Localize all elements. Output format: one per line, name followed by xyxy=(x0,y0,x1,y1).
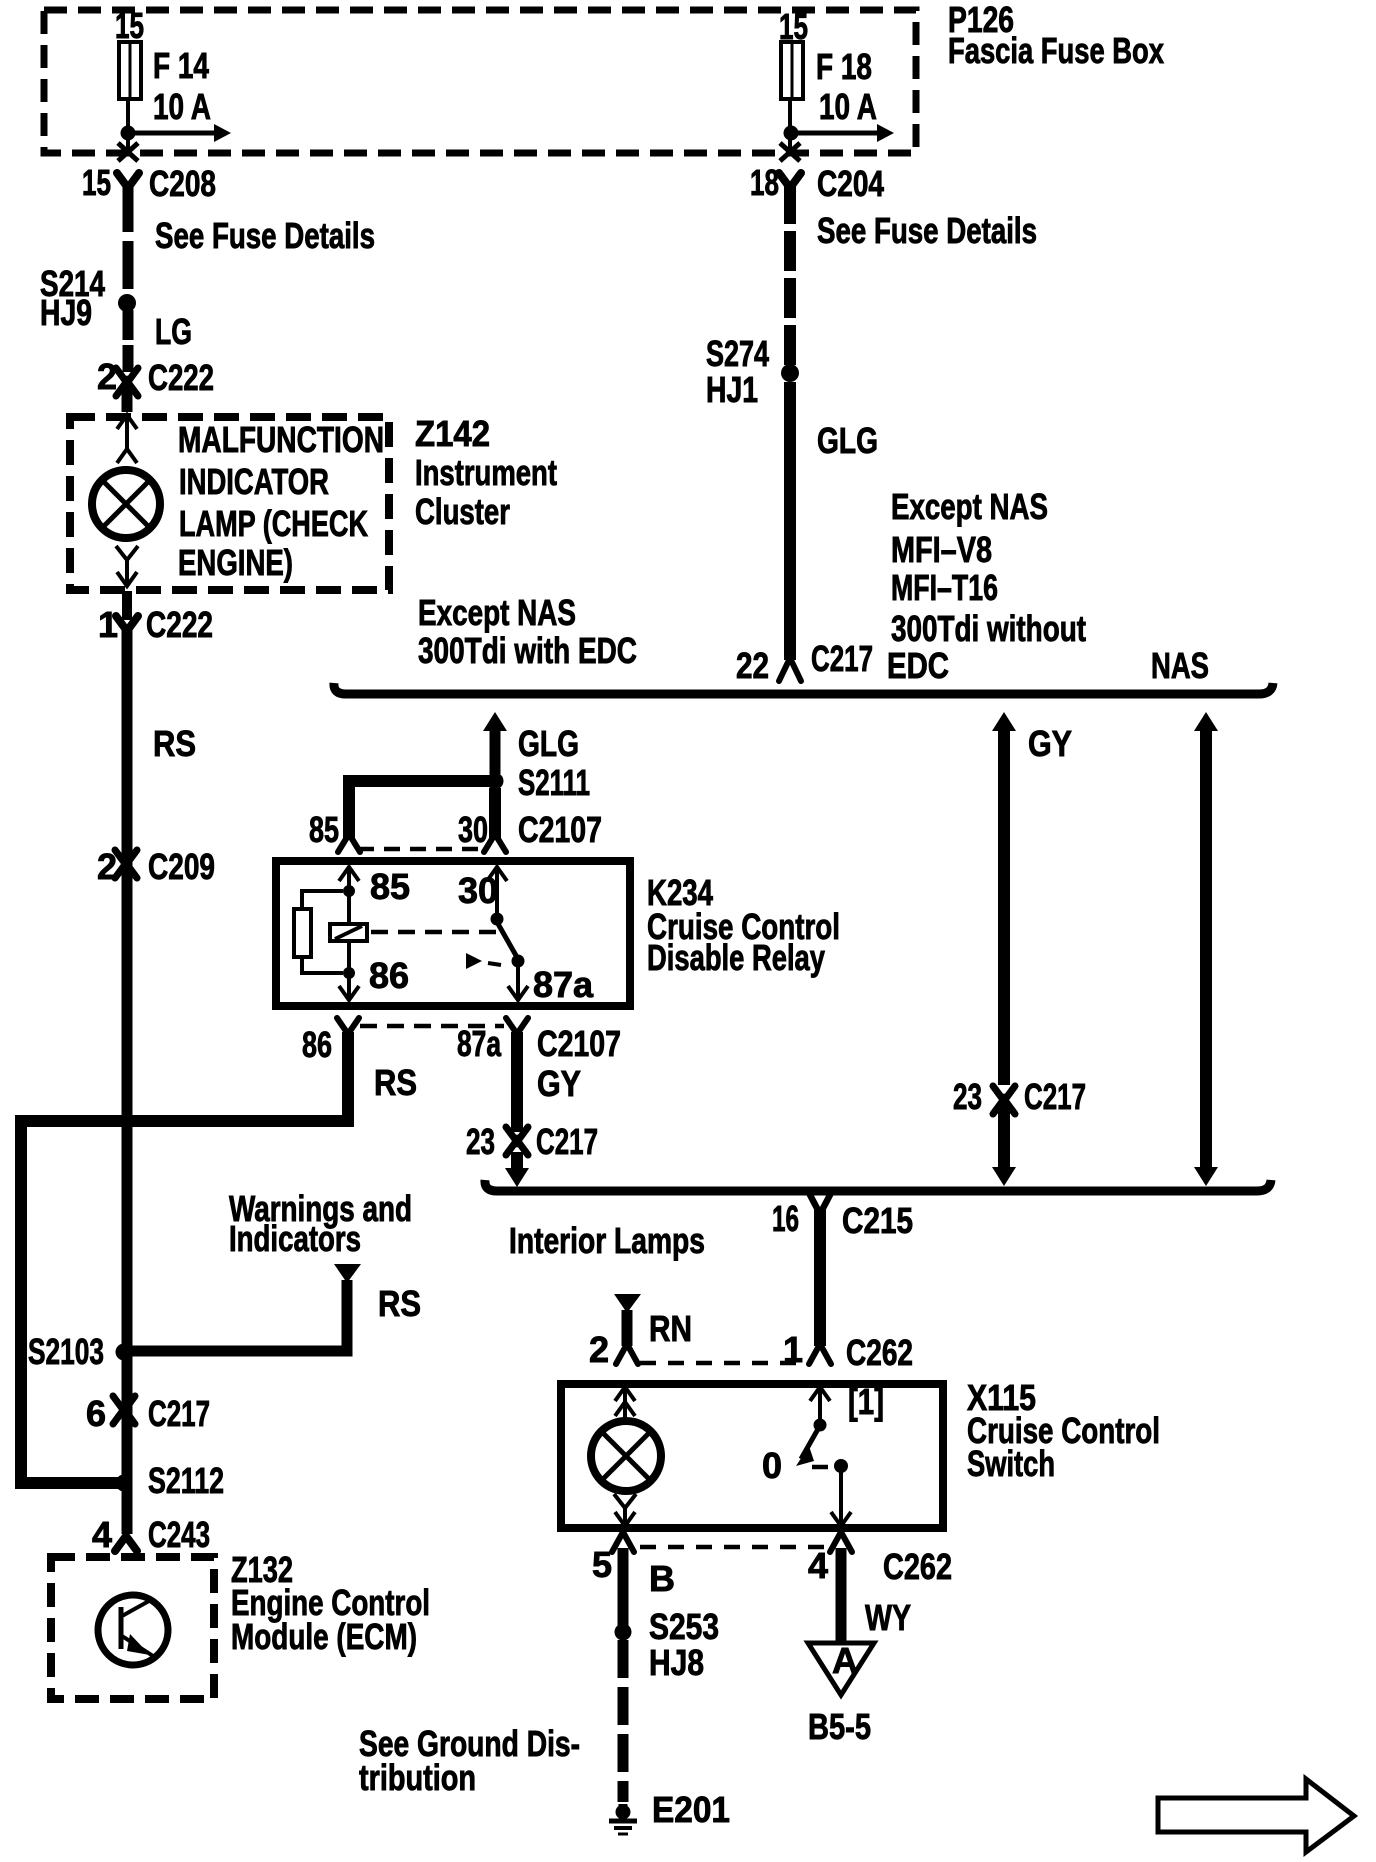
switch dashed to contact 0 xyxy=(812,1465,828,1470)
instrument cluster Z142 dashed box xyxy=(70,417,389,590)
wire GY lower (right option) with arrow xyxy=(992,1102,1016,1186)
svg-text:Z142: Z142 xyxy=(415,413,490,454)
lamp lower lead with exit arrow xyxy=(116,546,138,586)
svg-text:Switch: Switch xyxy=(967,1443,1055,1484)
svg-text:WY: WY xyxy=(865,1597,911,1638)
svg-text:86: 86 xyxy=(302,1024,332,1065)
svg-text:HJ8: HJ8 xyxy=(649,1642,704,1683)
svg-text:C2107: C2107 xyxy=(537,1023,621,1064)
svg-text:S2103: S2103 xyxy=(28,1331,104,1372)
relay internal node 86 xyxy=(343,967,355,979)
NAS option wire: arrow from upper bus xyxy=(1194,712,1218,731)
svg-text:S2112: S2112 xyxy=(148,1460,224,1501)
svg-text:See Fuse Details: See Fuse Details xyxy=(155,215,375,256)
svg-text:0: 0 xyxy=(762,1445,782,1486)
svg-text:INDICATOR: INDICATOR xyxy=(179,461,329,502)
interior lamps branch triangle xyxy=(614,1294,641,1313)
svg-text:LAMP (CHECK: LAMP (CHECK xyxy=(179,503,368,544)
svg-text:15: 15 xyxy=(115,5,144,46)
connector X at fusebox exit (F14) xyxy=(118,143,138,161)
svg-text:HJ1: HJ1 xyxy=(706,369,758,410)
svg-text:A: A xyxy=(832,1640,858,1681)
switch illumination lamp xyxy=(591,1421,661,1491)
svg-text:S253: S253 xyxy=(649,1606,719,1647)
svg-text:F 14: F 14 xyxy=(153,45,209,86)
splice S274 xyxy=(781,364,799,382)
svg-text:S274: S274 xyxy=(706,333,769,374)
svg-text:16: 16 xyxy=(772,1198,799,1239)
svg-text:C204: C204 xyxy=(817,163,884,204)
relay internal node 85 xyxy=(343,885,355,897)
wire warnings branch to S2103 xyxy=(128,1280,347,1351)
connector C208 xyxy=(117,173,139,188)
svg-text:See Fuse Details: See Fuse Details xyxy=(817,210,1037,251)
ECM Z132 dashed box xyxy=(51,1557,214,1699)
svg-text:85: 85 xyxy=(309,809,339,850)
connector dashed link C2107 bottom xyxy=(360,1024,504,1029)
connector C222 (pin 2) xyxy=(116,368,138,396)
relay 87a exit arrow xyxy=(508,961,528,1000)
svg-text:GLG: GLG xyxy=(817,420,878,461)
svg-text:MFI–V8: MFI–V8 xyxy=(891,529,992,570)
svg-text:C217: C217 xyxy=(811,638,873,679)
svg-text:6: 6 xyxy=(86,1393,106,1434)
off-page continuation arrow xyxy=(1158,1779,1354,1852)
connector C217 (pin 22) xyxy=(779,658,801,681)
svg-text:15: 15 xyxy=(82,162,111,203)
connector C2107 pin 86 (below relay) xyxy=(337,1018,359,1034)
splice S2111 xyxy=(487,773,504,790)
malfunction indicator lamp symbol xyxy=(92,470,160,538)
ground E201 symbol xyxy=(609,1804,637,1834)
junction dot under F14 xyxy=(121,126,136,141)
svg-text:10 A: 10 A xyxy=(153,86,211,127)
wire C222 into cluster xyxy=(122,386,133,412)
svg-text:GY: GY xyxy=(537,1063,581,1104)
svg-text:Disable Relay: Disable Relay xyxy=(647,937,825,978)
svg-text:2: 2 xyxy=(589,1329,609,1370)
svg-text:Fascia Fuse Box: Fascia Fuse Box xyxy=(948,30,1164,71)
svg-text:23: 23 xyxy=(953,1076,982,1117)
switch contact 1 node xyxy=(814,1419,827,1432)
svg-text:LG: LG xyxy=(155,311,192,352)
splice S253 xyxy=(615,1624,632,1641)
wire GY (right option) xyxy=(998,725,1010,1085)
svg-text:C209: C209 xyxy=(148,846,215,887)
wire GLG branch to S2111 xyxy=(490,725,501,774)
svg-text:23: 23 xyxy=(466,1121,495,1162)
svg-text:4: 4 xyxy=(808,1545,828,1586)
svg-text:tribution: tribution xyxy=(359,1757,476,1798)
switch contact 0 node xyxy=(834,1459,848,1473)
connector C2107 pin 87a (below relay) xyxy=(506,1018,528,1034)
svg-text:C208: C208 xyxy=(149,163,216,204)
connector C217 pin 23 (right option) xyxy=(993,1086,1015,1114)
svg-text:C222: C222 xyxy=(146,604,213,645)
svg-text:C217: C217 xyxy=(536,1121,598,1162)
connector X at fusebox exit (F18) xyxy=(780,143,800,161)
ECM transistor symbol xyxy=(98,1595,168,1665)
wire interior lamps to C262 pin 2 (RN) xyxy=(622,1310,633,1346)
GLG branch arrow into bus xyxy=(483,712,507,731)
svg-text:C217: C217 xyxy=(148,1393,210,1434)
svg-text:RS: RS xyxy=(378,1283,421,1324)
relay switch blade xyxy=(497,922,518,959)
relay actuator dashed link xyxy=(371,930,496,935)
relay coil lead xyxy=(347,891,351,924)
svg-text:86: 86 xyxy=(369,955,409,996)
relay actuator arrow xyxy=(466,953,501,969)
svg-text:Module (ECM): Module (ECM) xyxy=(231,1616,417,1657)
svg-text:C262: C262 xyxy=(883,1546,952,1587)
upper option bus xyxy=(334,683,1273,694)
svg-text:Except NAS: Except NAS xyxy=(891,486,1048,527)
wire S2111 to relay pin 85 xyxy=(349,781,495,838)
fuse F14 symbol xyxy=(119,42,141,99)
svg-text:[1]: [1] xyxy=(848,1381,884,1422)
switch contact entry arrow xyxy=(810,1387,830,1420)
relay pin 85 entry arrow xyxy=(339,867,359,886)
connector C209 xyxy=(115,850,137,878)
wire cluster to C222 pin1 xyxy=(122,591,132,620)
wire C215 to C262 pin 1 xyxy=(814,1210,826,1346)
lower option bus xyxy=(485,1180,1271,1191)
svg-text:MFI–T16: MFI–T16 xyxy=(891,567,998,608)
wire pin5 B to S253 xyxy=(618,1548,629,1626)
off-page connector A triangle xyxy=(808,1643,874,1695)
svg-text:C243: C243 xyxy=(148,1514,210,1555)
wire 87a GY upper xyxy=(511,1032,523,1132)
svg-text:22: 22 xyxy=(736,645,769,686)
svg-text:300Tdi with EDC: 300Tdi with EDC xyxy=(418,630,637,671)
svg-text:EDC: EDC xyxy=(887,645,949,686)
svg-text:Cluster: Cluster xyxy=(415,491,510,532)
connector C262 pin 5 (below switch) xyxy=(612,1532,634,1552)
svg-text:C2107: C2107 xyxy=(518,809,602,850)
svg-text:30: 30 xyxy=(458,870,498,911)
svg-text:87a: 87a xyxy=(533,964,594,1005)
connector C217 pin 23 (87a wire) xyxy=(506,1127,528,1155)
svg-text:Except NAS: Except NAS xyxy=(418,592,576,633)
warnings and indicators branch triangle xyxy=(334,1264,361,1283)
svg-text:RN: RN xyxy=(649,1308,692,1349)
svg-text:RS: RS xyxy=(153,723,196,764)
svg-text:MALFUNCTION: MALFUNCTION xyxy=(178,419,384,460)
svg-text:1: 1 xyxy=(98,604,118,645)
connector dashed link C262 top xyxy=(640,1361,800,1366)
splice S2112 xyxy=(116,1475,133,1492)
svg-text:C215: C215 xyxy=(842,1200,913,1241)
svg-text:4: 4 xyxy=(92,1514,112,1555)
relay shunt resistor xyxy=(294,891,343,973)
wire C208 to S214 (dashed) xyxy=(123,184,134,296)
connector C262 pin 4 (below switch) xyxy=(830,1532,852,1552)
switch blade xyxy=(801,1429,818,1459)
switch lamp exit arrow xyxy=(614,1494,636,1526)
svg-text:GLG: GLG xyxy=(518,723,579,764)
junction dot under F18 xyxy=(784,126,799,141)
wire C204 to S274 (dashed) xyxy=(784,184,796,365)
feed arrow from F14 xyxy=(128,124,231,142)
svg-text:30: 30 xyxy=(458,809,488,850)
svg-text:87a: 87a xyxy=(457,1023,502,1064)
connector C262 pin 1 xyxy=(809,1344,831,1364)
svg-text:GY: GY xyxy=(1028,723,1072,764)
svg-text:C222: C222 xyxy=(148,357,214,398)
NAS wire arrow into lower bus xyxy=(1194,1167,1218,1186)
svg-text:85: 85 xyxy=(370,866,410,907)
switch 0 exit arrow xyxy=(831,1470,851,1526)
svg-text:NAS: NAS xyxy=(1151,645,1209,686)
svg-text:C217: C217 xyxy=(1024,1076,1086,1117)
connector C2107 pin 30 foot xyxy=(484,834,506,852)
cluster entry arrow xyxy=(117,415,137,463)
connector C243 xyxy=(115,1536,137,1551)
svg-text:Interior Lamps: Interior Lamps xyxy=(509,1220,705,1261)
splice S2103 xyxy=(116,1344,133,1361)
wire 87a GY lower with arrow into lower bus xyxy=(505,1152,529,1187)
wire S274 to C217 (GLG) xyxy=(784,382,796,660)
svg-text:S2111: S2111 xyxy=(518,762,590,803)
svg-text:300Tdi without: 300Tdi without xyxy=(891,608,1086,649)
wire relay 86 loop: down, left, down, to S2112 xyxy=(21,1032,348,1483)
connector C204 xyxy=(779,173,801,188)
feed arrow from F18 xyxy=(791,124,894,142)
wire F14 to junction xyxy=(126,99,130,150)
connector dashed link C262 bottom xyxy=(640,1545,826,1550)
connector C222 (pin 1) xyxy=(116,616,138,631)
svg-text:B: B xyxy=(649,1558,675,1599)
svg-text:F 18: F 18 xyxy=(816,46,872,87)
wire S253 to E201 (dashed) xyxy=(618,1640,629,1802)
wire pin4 WY to connector A xyxy=(836,1548,847,1641)
svg-text:2: 2 xyxy=(97,356,117,397)
wire S214 to C222 (LG) xyxy=(123,310,134,372)
svg-text:Indicators: Indicators xyxy=(229,1218,361,1259)
svg-text:B5-5: B5-5 xyxy=(808,1706,871,1747)
right option wire GY: arrow from upper bus xyxy=(992,712,1016,731)
svg-text:18: 18 xyxy=(750,162,779,203)
svg-text:5: 5 xyxy=(592,1544,612,1585)
svg-text:C262: C262 xyxy=(846,1332,913,1373)
connector C2107 pin 85 foot xyxy=(338,834,360,852)
relay K234 box xyxy=(276,861,630,1006)
connector C215 xyxy=(809,1193,831,1214)
fuse F18 symbol xyxy=(781,42,803,99)
switch lamp entry arrow xyxy=(615,1387,635,1421)
fuse box P126 dashed enclosure xyxy=(44,10,916,153)
svg-text:HJ9: HJ9 xyxy=(40,292,92,333)
relay blade contact node xyxy=(512,955,525,968)
relay coil xyxy=(330,924,367,941)
relay coil to node 86 xyxy=(347,941,351,973)
svg-text:ENGINE): ENGINE) xyxy=(178,542,293,583)
svg-text:RS: RS xyxy=(374,1062,417,1103)
connector C217 (pin 6) xyxy=(113,1396,135,1424)
wire NAS option xyxy=(1200,725,1212,1172)
switch blade arrowhead xyxy=(796,1446,814,1466)
relay pin 30 entry arrow xyxy=(487,867,507,913)
connector C262 pin 2 xyxy=(616,1344,638,1364)
svg-text:Instrument: Instrument xyxy=(415,452,557,493)
connector dashed link C2107 top xyxy=(358,847,482,852)
svg-text:E201: E201 xyxy=(652,1789,730,1830)
wire F18 to junction xyxy=(788,99,792,150)
relay internal node 30 xyxy=(491,913,504,926)
main RS wire down left side xyxy=(122,629,133,1534)
cruise control switch X115 box xyxy=(561,1384,943,1528)
svg-text:10 A: 10 A xyxy=(819,86,877,127)
splice S214 xyxy=(118,294,136,312)
relay 86 exit arrow xyxy=(339,973,359,1000)
